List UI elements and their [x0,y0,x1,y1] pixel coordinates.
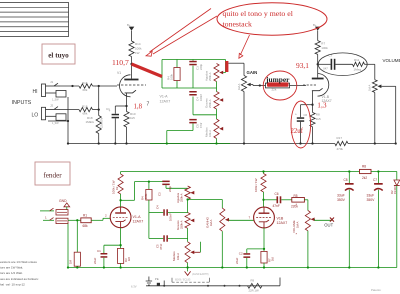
svg-text:93,1: 93,1 [296,61,309,70]
svg-text:1Meg: 1Meg [354,68,362,72]
svg-text:D2: D2 [390,190,394,194]
resistor R7 100k (V2 plate) [315,41,328,55]
svg-text:1M: 1M [69,259,73,264]
svg-text:LO: LO [32,113,39,119]
svg-text:B+: B+ [313,23,317,27]
svg-text:6DX8 / ECL85: 6DX8 / ECL85 [175,279,191,282]
heater rail [146,281,280,287]
svg-text:1k5: 1k5 [130,116,135,120]
svg-text:OUT: OUT [324,222,333,227]
red text 93,1 [296,61,309,70]
svg-text:220p: 220p [199,64,203,70]
wire V1 cathode down [125,93,127,107]
svg-text:12AX7: 12AX7 [277,221,288,225]
resistor R8 2k2 (filter) [360,165,372,180]
wire V1B plate node [262,192,264,207]
svg-text:110,7: 110,7 [112,58,129,67]
svg-text:33uF: 33uF [367,194,375,198]
svg-text:HI: HI [33,89,38,95]
wire volume wiper to OUT [315,219,332,220]
red arrow to tonestack output [239,35,250,58]
svg-text:22uF: 22uF [235,257,239,264]
coupling capacitor 0.047u [323,54,336,71]
svg-text:V1-A: V1-A [160,95,169,99]
wire node A to V1 grid [99,85,117,87]
top rail (fender B+) [121,170,380,172]
capacitor C1 22u/25V [100,107,120,144]
capacitor C6 47nF (coupling) [273,192,282,208]
supply symbol V1 plate [127,23,134,31]
black ellipse around coupling parts [318,53,367,76]
svg-text:.047: .047 [323,67,329,71]
capacitor C3 220p (fender) [158,181,188,196]
ground bus (top schematic) left part [68,143,335,145]
label V1-B 12AX7 [322,95,332,103]
svg-text:C8: C8 [344,178,348,182]
svg-text:1W: 1W [135,51,140,55]
svg-text:C3: C3 [196,66,200,70]
svg-text:tonestack: tonestack [223,19,253,28]
wire cathode node to C1 [115,106,126,114]
svg-text:tors are 1W Watt.: tors are 1W Watt. [0,266,23,270]
resistor R15 68k [79,105,93,116]
svg-text:GAIN: GAIN [247,70,258,75]
wire GAIN wiper to jumper [251,84,266,86]
note text small [131,284,137,288]
svg-text:12AX7: 12AX7 [160,100,171,104]
green bus overlay [150,142,245,144]
svg-text:1N4007: 1N4007 [393,184,397,194]
svg-text:R9: R9 [251,278,255,282]
red text 1,3 [317,101,327,110]
jack sleeve wire to ground bus [48,97,69,144]
text HI [33,89,38,95]
svg-text:C4: C4 [156,205,160,209]
svg-text:1MEG: 1MEG [86,120,95,124]
svg-text:100nF: 100nF [169,213,173,221]
wire jack sleeve to bottom bus [67,224,69,269]
red bar removed tone connection [225,61,228,72]
svg-text:GANHO: GANHO [205,216,209,228]
svg-text:R17: R17 [337,136,343,140]
pot Agudos 250k-A [205,60,226,82]
svg-text:350V: 350V [367,198,376,202]
text PE [155,277,159,281]
wire tonestack out to GAIN [228,63,244,75]
wire R7 to V2 plate / node 93.1 [317,54,319,77]
wire volume bottom to bus [374,92,376,144]
wire J2 tip to R15 [60,109,79,111]
diode D2 1N4007 [390,172,400,268]
wire node A to node B [98,86,100,110]
svg-text:250k-A: 250k-A [179,220,183,229]
red text 22uf [291,128,304,135]
svg-text:1M-A: 1M-A [296,221,300,228]
fender jack contact 2 [43,216,68,224]
resistor R3 1k5 (V1A cathode) [118,245,132,268]
svg-text:el tuyo: el tuyo [48,52,69,60]
label box 'el tuyo' [42,44,75,64]
text V1 [117,71,121,75]
red arrow to V1 plate area [146,9,217,57]
wire V1B cathode network [247,228,265,253]
capacitor C1 22uF (V1A bypass) [93,249,107,269]
capacitor C4 100nF (fender) [149,205,188,221]
resistor R10 1k5 [124,106,136,144]
pot Graves 250k-A [205,82,224,110]
svg-text:GND: GND [59,199,67,203]
svg-text:Agudos: Agudos [205,70,209,81]
capacitor C3 220p (tonestack) [189,60,203,71]
capacitor C8 33uF/350V [337,172,354,269]
svg-text:C2: C2 [239,252,243,256]
svg-text:47nF: 47nF [159,243,163,250]
svg-text:1M-A: 1M-A [209,219,213,226]
label V1-A 12AX7 [160,95,171,104]
grid leader dashes V1 [117,84,146,86]
red text 1,8 [134,104,143,111]
capacitor C6 22uF (bypass) [295,113,308,144]
svg-text:250k-A: 250k-A [208,72,212,81]
wire GAIN bottom to bus [243,92,245,144]
capacitor C2 22uF (V1B bypass) [235,252,250,269]
heater rail end hook [279,278,281,286]
svg-text:V1B: V1B [277,216,284,220]
triode V1B (fender, circle) [254,207,275,228]
text GAIN [247,70,258,75]
svg-text:Medios: Medios [205,127,209,137]
svg-text:C7: C7 [373,178,377,182]
resistor R2 100k/1W (V1A plate) [112,172,124,195]
svg-text:Agudos: Agudos [176,192,180,203]
svg-text:1k5: 1k5 [128,256,131,261]
svg-text:hal ·val· 10 exp-12: hal ·val· 10 exp-12 [0,282,25,286]
red note ellipse 'quito el tono y meto el tonestack' [217,3,327,35]
triode V2 (plate bar, envelope arc, cathode) [312,74,329,97]
svg-text:R15: R15 [82,105,88,109]
svg-text:VOLUME: VOLUME [383,58,400,63]
wire V1A cathode network [104,228,122,253]
supply symbol V2 plate [313,23,321,31]
svg-text:R11: R11 [354,58,360,62]
resistor R6 100k/1W (V1B plate) [254,170,266,192]
wire supply to R14 [131,31,133,41]
capacitor C5 47nF (fender) [149,235,188,250]
label box 'fender' [35,162,70,185]
pot Medios 10k-A [205,109,224,144]
grid leader dashes V2 [303,84,317,86]
tonestack top rail (green) [162,59,226,61]
wire plate node V1A [119,194,121,207]
resistor (jumpered) 220k [266,83,290,91]
wire cathode node to C6 [301,105,313,118]
junction dots cathode RC on bus [67,142,128,144]
svg-text:R2: R2 [115,186,119,190]
svg-text:100nf: 100nf [199,94,203,101]
svg-text:esistors are 1/4 Watt unless: esistors are 1/4 Watt unless [0,260,37,264]
svg-text:250k-A: 250k-A [179,193,183,202]
svg-text:C5: C5 [196,124,200,128]
svg-text:6.3V: 6.3V [131,284,137,288]
pot Agudos 250k-A (fender) [176,186,195,203]
note box (ruled lines) top-left [0,3,69,37]
jack J2 switch label [52,122,59,125]
resistor R4 100k (slope) [166,60,180,89]
pot VOLUME 1M-A (top) [368,80,382,93]
wire V2 cathode down [311,91,313,106]
pot Medios 10k-A (fender) [172,228,200,268]
svg-text:22R 1W: 22R 1W [249,289,259,293]
resistor R11 1Meg [353,58,365,72]
svg-text:B+: B+ [127,23,131,27]
svg-text:Graves: Graves [205,98,209,108]
svg-text:100k: 100k [170,74,174,80]
wire cap to R11 [335,63,352,65]
svg-text:22u 25V: 22u 25V [100,117,104,128]
svg-text:470k: 470k [337,147,344,151]
resistor R17 in bus [335,136,348,151]
wire C6 to R5 [281,199,292,201]
svg-text:R8: R8 [362,165,366,169]
svg-text:1M-A: 1M-A [237,83,241,90]
resistor R8 1k5 (V2 cathode) [310,105,321,144]
resistor R7 1k5 (V1B cathode) [261,249,275,269]
svg-text:1,8: 1,8 [134,104,143,111]
pin 7 label [147,102,150,108]
wire jack tip to R1 with node [68,219,81,221]
wire supply to R7 [317,31,319,41]
svg-text:1M-A: 1M-A [368,84,372,91]
wire jumper to V2 grid [290,85,307,87]
wire R11 to volume pot [365,64,375,79]
svg-text:*: * [296,232,298,237]
svg-text:1_SW: 1_SW [52,99,59,102]
AGND arrow below bus [185,268,209,277]
svg-text:quito el tono y meto el: quito el tono y meto el [223,9,294,18]
svg-text:2: 2 [105,214,107,218]
svg-text:J1: J1 [50,80,54,84]
svg-text:100k: 100k [321,46,328,50]
svg-text:C3: C3 [158,192,162,196]
wire R5 to volume pot [304,200,308,211]
svg-text:R1: R1 [83,214,87,218]
red bar over jumpered resistor [267,82,289,86]
tonestack input vertical [161,60,163,89]
svg-text:+: + [295,113,297,117]
wire R14 to V1 plate / node 110.7 [130,57,132,79]
wire plate to tonestack input [121,180,166,200]
capacitor C5 47nF (tonestack) [189,119,203,128]
tonestack mid horizontals [162,66,217,144]
triode V1-A (plate bar, envelope arc, cathode) [120,75,139,97]
wire R1 to V1A grid [91,214,110,221]
red ellipse around V2 bypass cap [291,101,311,148]
twisted pair dashed marker [172,278,210,282]
svg-text:100k / 1W: 100k / 1W [254,178,258,192]
svg-text:jumper: jumper [265,75,290,84]
svg-text:R14: R14 [135,42,141,46]
svg-text:C1: C1 [97,249,101,253]
wire plate to C6 [264,199,277,201]
svg-text:250k-A: 250k-A [208,99,212,108]
PE ground symbol [146,277,152,286]
red text 110,7 [112,58,129,67]
resistor R5 220k [291,194,304,209]
svg-text:12AX7: 12AX7 [133,220,144,224]
svg-text:220p: 220p [168,185,172,192]
text Patents [371,288,381,292]
svg-text:C1: C1 [106,107,110,111]
svg-text:R4: R4 [141,196,145,200]
svg-text:C4: C4 [196,97,200,101]
svg-text:PE: PE [155,277,159,281]
capacitor C4 100nF (tonestack) [189,91,203,101]
svg-text:V1-A: V1-A [133,215,142,219]
pot GAIN 1M-A [237,76,251,92]
input jack J2 (LO) [42,104,67,121]
svg-text:1,3: 1,3 [317,101,327,110]
bottom bus (fender ground) [68,267,397,269]
resistor R18 1MEG [86,110,102,144]
svg-text:1_SW: 1_SW [52,122,59,125]
svg-text:(AGND EARTH): (AGND EARTH) [192,273,209,276]
svg-text:47nf: 47nf [199,123,203,128]
svg-text:R16: R16 [82,81,88,85]
svg-text:V1: V1 [117,71,121,75]
svg-text:7: 7 [147,102,150,108]
triode V1-A (fender, circle) [110,207,131,228]
svg-text:10k-A: 10k-A [208,130,212,137]
svg-text:R7: R7 [321,42,325,46]
resistor R1 68k [81,214,91,229]
svg-text:J2: J2 [50,104,54,108]
svg-text:1k5: 1k5 [316,117,321,121]
pot Graves 250k-A (fender) [176,200,195,231]
svg-text:Medios: Medios [172,251,176,261]
svg-text:100k: 100k [135,47,142,51]
fender jack contact 1 [40,208,68,215]
jack J1 switch label [52,99,59,102]
pot VOLUME 1M-A (fender) [292,202,315,237]
svg-text:C6: C6 [304,113,308,117]
wire R16 out / node A [93,85,100,87]
resistor R4 100k (fender slope) [141,182,152,200]
wire volume wiper out [381,86,396,144]
svg-text:100k / 1W: 100k / 1W [112,180,116,194]
label V1-A 12AX7 (fender) [133,215,144,224]
svg-text:2k2: 2k2 [362,176,367,180]
resistor R14 100k [129,41,142,57]
svg-text:47nF: 47nF [273,204,280,208]
svg-text:22uf: 22uf [291,128,304,135]
X mark at OUT [330,218,334,222]
red thick wire V1 plate to tonestack [132,64,163,77]
svg-text:350V: 350V [337,198,346,202]
wire R15 out / node B [93,108,100,110]
svg-text:1: 1 [45,216,47,220]
wire slope to bass/mid caps [148,200,150,239]
label V1B 12AX7 [277,216,288,225]
svg-text:68k: 68k [83,88,88,92]
text jumper [265,75,290,84]
text INPUTS [12,100,32,106]
svg-text:R5: R5 [294,194,298,198]
svg-text:22uF: 22uF [93,257,97,264]
red ellipse 'jumper' [263,71,297,100]
GND symbol (fender input) [59,199,70,210]
svg-text:68k: 68k [83,111,88,115]
capacitor C7 33uF/350V [367,172,383,269]
svg-text:100k: 100k [145,193,148,199]
text VOLUME [383,58,400,63]
svg-text:C6: C6 [275,192,279,196]
wire plate node into coupling network [318,63,331,65]
svg-text:INPUTS: INPUTS [12,100,32,106]
wire GANHO wiper to V1B grid [229,216,254,221]
svg-text:33uF: 33uF [337,194,345,198]
top rail right of R8 [371,171,397,173]
svg-text:7: 7 [249,216,251,220]
PE pad [157,283,160,286]
ground bus (top schematic) right part [348,143,396,145]
text OUT [324,222,333,227]
pot GANHO 1M-A [205,208,229,269]
resistor R9 heater [248,278,263,292]
wire volume bottom to bus [307,231,309,269]
svg-text:Graves: Graves [176,220,180,230]
input jack J1 (HI) [42,80,67,97]
svg-text:fender: fender [43,172,62,180]
resistor R2 1M (grid leak) [69,220,81,268]
svg-text:Patents:: Patents: [371,288,381,292]
resistor R16 68k [79,81,93,92]
svg-text:tors are 1/2 Watt.: tors are 1/2 Watt. [0,271,23,275]
notes text block (clipped at left edge) [0,260,39,286]
text LO [32,113,39,119]
svg-text:22k: 22k [272,88,277,92]
wire tonestack to GANHO pot [186,198,222,208]
svg-text:ues are indicated as Follows:: ues are indicated as Follows: [0,277,39,281]
junction dots V2 RC on bus [299,142,313,144]
svg-text:10k-A: 10k-A [176,253,180,260]
wire J1 tip to R16 with node [60,85,79,87]
svg-text:68k: 68k [83,224,89,228]
svg-text:1k5: 1k5 [271,256,274,261]
